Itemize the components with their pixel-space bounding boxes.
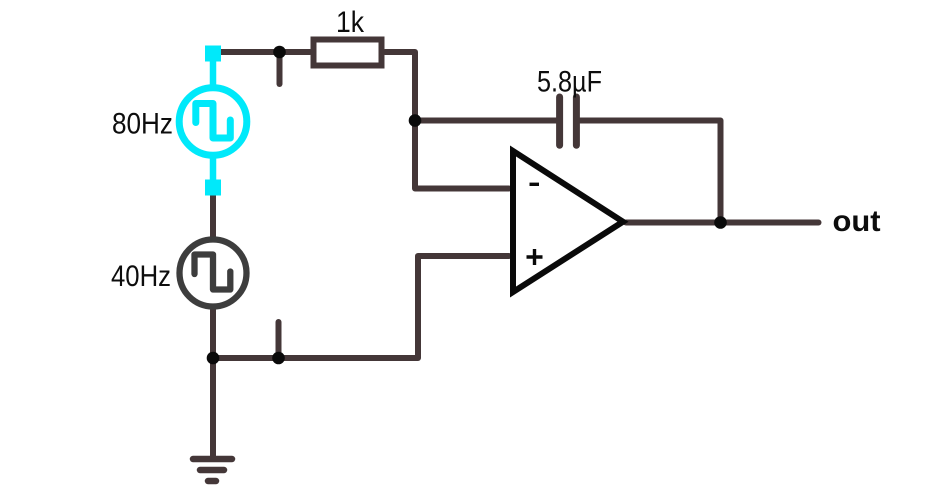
svg-text:1k: 1k <box>336 6 365 39</box>
svg-text:5.8µF: 5.8µF <box>537 65 602 98</box>
svg-text:out: out <box>833 205 881 238</box>
svg-text:80Hz: 80Hz <box>112 108 173 141</box>
svg-text:40Hz: 40Hz <box>111 260 171 293</box>
